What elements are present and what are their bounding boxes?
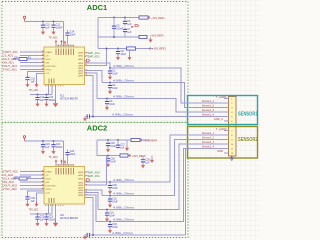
junction [117,48,119,50]
IC1 right pin names [78,51,83,77]
svg-text:100nF: 100nF [116,28,123,31]
wire CS_AD2 + label [3,173,45,177]
svg-text:SCLK: SCLK [46,178,52,180]
J1 pin stub 12 + label GND [217,149,228,153]
junction [46,213,48,215]
ground [108,203,112,208]
J1 pin stub 1 [224,98,229,100]
junction [109,67,111,69]
svg-text:AD7124-8BCPZ: AD7124-8BCPZ [60,98,78,101]
svg-text:CS_AD1: CS_AD1 [3,54,14,58]
svg-text:10nF: 10nF [109,215,115,218]
svg-text:DOUT_AD2: DOUT_AD2 [3,184,18,188]
ground [108,228,112,233]
ground [44,221,48,226]
J1 pin numbers 7-12 [231,131,234,156]
capacitor C3 row C [105,99,115,107]
svg-text:1uF: 1uF [31,81,36,84]
IC2 bottom pin names [49,198,54,203]
svg-text:GND: GND [217,149,223,153]
svg-text:ADC2: ADC2 [87,124,107,133]
junction [109,195,111,197]
capacitor C24 [65,150,75,165]
global label TEMP_AD1+ [85,52,102,55]
wire pin to ground [37,193,45,204]
ground [106,147,110,152]
ground [83,116,87,121]
J1 pin numbers 1-6 [231,99,233,124]
svg-text:TP_AD2: TP_AD2 [49,156,59,159]
svg-text:10nF: 10nF [112,226,118,229]
capacitor C1 row A [108,68,118,76]
wire REF feed up [85,49,107,66]
wire row D [90,116,229,118]
pin numbers IC1 top [57,44,73,46]
IC1 left pin names [46,51,57,75]
svg-text:TEMP_AD1-: TEMP_AD1- [87,56,101,59]
ground [44,102,48,107]
power +3V3_AVDD1 symbol [23,16,25,21]
svg-text:100nF: 100nF [56,27,63,30]
pin numbers IC2 top [57,164,73,166]
capacitor row E2 shield [86,233,90,237]
ground [51,149,55,154]
ground [35,221,39,226]
junction [106,48,108,50]
capacitor C10 [41,22,50,30]
ground [53,101,58,108]
svg-text:SYNC: SYNC [46,189,52,191]
svg-text:+3V3_REF4: +3V3_REF4 [143,139,157,142]
capacitor C22 [35,214,44,222]
ground right [150,156,154,164]
svg-text:START: START [46,51,53,54]
wire pin to ground tall [55,88,57,102]
junction [124,17,126,19]
svg-text:CS_AD2: CS_AD2 [3,173,14,177]
sheet ADC2 box [2,122,188,237]
svg-text:GND_A: GND_A [214,117,223,121]
junction [109,82,111,84]
wire AIN row C2 [85,144,229,210]
svg-text:4.99k_Ohms: 4.99k_Ohms [113,207,135,210]
junction [37,213,39,215]
power flag [55,40,58,45]
capacitor row C2 [105,210,115,218]
junction [92,116,94,118]
ground [53,220,58,227]
ground [41,30,45,35]
wire CLK pin to C15 [28,72,45,78]
svg-text:START: START [46,170,53,173]
wire REF2 rail A [97,140,150,156]
svg-text:Sense2_2: Sense2_2 [202,136,215,140]
svg-text:4.99k_Ohms: 4.99k_Ohms [113,65,135,68]
hier label REFIN1 [149,47,166,50]
wire DOUT_AD2 + label [3,184,45,188]
hier label +3V3_REF1 [148,16,165,20]
svg-text:Sense2_1: Sense2_1 [202,131,215,135]
svg-text:DIN: DIN [46,182,50,184]
capacitor C11 [51,22,63,30]
wire REF rail B [98,36,147,38]
resistor R6 [131,138,140,141]
svg-text:+3V3_REF2: +3V3_REF2 [150,35,164,38]
ground [116,55,120,60]
junction [107,155,109,157]
resistor R2 [139,16,148,19]
wire pin to ground tall [55,208,57,222]
svg-text:TP2_AD2: TP2_AD2 [29,209,40,212]
junction [42,140,44,142]
wire AIN row B2 [85,140,229,196]
wire DOUT_AD1 + label [3,64,45,68]
capacitor C20 [41,141,50,149]
capacitor C2 row B [108,83,118,91]
svg-text:10nF: 10nF [109,103,115,106]
capacitor C7 [123,28,132,38]
pin numbers IC2 left edge [42,171,43,189]
junction [113,17,115,19]
capacitor C6 [123,18,132,27]
svg-text:DIN_AD1: DIN_AD1 [3,61,15,65]
junction [46,94,48,96]
svg-text:Sense2_4: Sense2_4 [202,145,215,149]
svg-text:START_AD2: START_AD2 [3,170,19,174]
IC1 top pin names [56,49,74,56]
wire REF rail C [98,48,153,50]
svg-text:ADC1: ADC1 [87,3,107,12]
svg-text:Sense1_3: Sense1_3 [202,108,215,112]
junction [37,94,39,96]
svg-text:1uF: 1uF [40,99,45,102]
svg-text:T_Lab02: T_Lab02 [216,127,227,131]
wire AVDD rail [25,141,64,164]
pin stubs IC1 top [56,45,74,48]
svg-text:TP1_AD1: TP1_AD1 [29,89,40,92]
power +3V3_AVDD2 symbol [23,136,25,141]
svg-text:1uF: 1uF [127,23,132,26]
op-amp IC1 body (ADC AD7124) [44,47,85,85]
wire REF2 feed up [85,156,107,186]
IC2 top pin names [56,168,74,175]
capacitor C25 [25,197,35,203]
wire AIN row D2 [85,149,229,222]
svg-text:1uF: 1uF [45,27,50,30]
junction [53,140,55,142]
svg-text:10nF: 10nF [112,201,118,204]
capacitor C21 [51,141,63,149]
capacitor C4 row D shield [86,114,90,118]
svg-text:4.99k_Ohms: 4.99k_Ohms [113,80,135,83]
wire DIN_AD1 + label [3,61,45,65]
svg-text:CLK: CLK [46,192,51,194]
ground [25,82,29,87]
svg-text:DIN: DIN [46,62,50,64]
ground [34,202,38,207]
J1 pin stub 6 + label GND_A [214,117,229,121]
svg-text:1uF: 1uF [145,161,150,164]
svg-text:SYNC: SYNC [46,69,52,71]
capacitor C23 [44,214,56,222]
wire AIN row C feed [85,73,98,99]
SENSOR2 sheet box [188,127,258,159]
hier arrow small [135,25,139,27]
pin stubs IC1 left [42,52,45,70]
hier label stub [85,59,90,62]
resistor R5 100 Ohm [14,176,32,180]
IC1 bottom pin names [49,79,54,84]
wire DIN_AD2 + label [3,180,45,184]
wire AIN row D feed [85,76,94,117]
power flag [55,159,58,164]
junction [117,139,119,141]
svg-text:10nF: 10nF [110,160,116,163]
svg-text:100nF: 100nF [56,146,63,149]
wire pin to ground [37,74,45,85]
svg-text:DIN_AD2: DIN_AD2 [3,180,15,184]
wire row A [110,68,229,103]
wire REF rail A [98,18,150,49]
svg-text:4.99k_Ohms: 4.99k_Ohms [113,219,135,222]
pin numbers IC2 bottom [45,204,64,206]
svg-text:10uF: 10uF [70,153,76,156]
ground under rail [125,140,129,151]
svg-text:SYNC_AD2: SYNC_AD2 [3,187,18,191]
capacitor C27 [116,140,125,150]
svg-text:+3V3_REF5: +3V3_REF5 [132,155,146,158]
svg-text:1uF: 1uF [31,200,36,203]
ground [34,82,38,87]
capacitor C14 [65,30,75,45]
pin numbers IC1 right edge [86,52,87,75]
capacitor C15 [25,77,35,83]
wire SCLK_AD2 + label [3,177,45,181]
svg-text:+3V3_REF3: +3V3_REF3 [152,48,166,51]
ground [108,89,112,94]
capacitor C13 [44,95,56,103]
svg-text:SYNC_AD1: SYNC_AD1 [3,68,18,72]
hier label +3V3_REF4 [141,139,158,143]
svg-text:100: 100 [14,176,19,179]
pin stubs IC2 bottom [49,204,56,208]
power flag [64,41,67,46]
junction [53,21,55,23]
op-amp IC2 body (ADC AD7124) [44,167,85,205]
hier label +3V3_REF5 [129,154,146,158]
svg-text:1uF: 1uF [120,147,125,150]
svg-text:DOUT/RDY: DOUT/RDY [46,66,57,68]
svg-text:SENSOR2: SENSOR2 [238,137,258,143]
power flag [60,159,63,164]
connector J1 body [229,97,237,157]
wire SYNC_AD1 + label [3,68,45,72]
wire SCLK_AD1 + label [3,57,45,61]
wire row B [102,83,229,108]
svg-text:Sense1_2: Sense1_2 [202,104,215,108]
svg-text:1uF: 1uF [127,31,132,34]
capacitor C8 [116,49,127,57]
svg-text:1uF: 1uF [45,146,50,149]
ground [141,163,145,168]
ground [83,234,87,239]
IC2 left pin names [46,170,57,194]
svg-text:SENSOR1: SENSOR1 [238,111,258,117]
wire CS_AD1 + label [3,54,45,58]
wire START_AD2 + label [3,170,45,174]
junction [106,209,108,211]
svg-text:10nF: 10nF [112,87,118,90]
svg-text:10nF: 10nF [112,73,118,76]
wire AGND rail [30,88,52,95]
ground [106,162,110,167]
svg-text:DOUT/RDY: DOUT/RDY [46,185,57,187]
IC2 right pin names [78,171,83,197]
junction [113,36,115,38]
wire CLK pin to C25 [28,191,45,197]
power flag [60,40,63,45]
ground (blue) below J1 [230,156,234,161]
svg-text:Sense1_4: Sense1_4 [202,113,215,117]
capacitor row A2 [108,182,118,190]
capacitor C12 [35,95,44,103]
resistor R1 100 Ohm [14,57,32,61]
junction [42,21,44,23]
wire AIN row E2 [85,149,186,236]
svg-text:TP_AD1: TP_AD1 [49,37,59,40]
junction [106,98,108,100]
svg-text:T_Lab01: T_Lab01 [216,95,227,99]
svg-text:Sense2_3: Sense2_3 [202,140,215,144]
svg-text:4.99k_Ohms: 4.99k_Ohms [113,96,135,99]
svg-text:4.99k_Ohms: 4.99k_Ohms [113,179,135,182]
ground mark mid [131,26,133,27]
svg-text:AD7124-8BCPZ: AD7124-8BCPZ [60,217,78,220]
svg-text:START_AD1: START_AD1 [3,50,19,54]
svg-text:+3V3_REF1: +3V3_REF1 [151,17,165,20]
svg-text:Sense1_1: Sense1_1 [202,99,215,103]
junction [107,139,109,141]
svg-text:SCLK: SCLK [46,59,52,61]
wire AIN row A2 [85,135,229,182]
ground [41,149,45,154]
svg-text:4.99k_Ohms: 4.99k_Ohms [112,114,134,117]
global label TEMP_AD2- [85,175,101,178]
wire AIN row A feed [85,63,111,68]
svg-text:10nF: 10nF [112,187,118,190]
ground [148,38,152,43]
capacitor C5 [112,18,124,38]
svg-text:CLK: CLK [46,73,51,75]
pin stubs IC1 bottom [49,85,56,89]
resistor R3 [139,35,147,38]
ground [108,189,112,194]
pin numbers IC2 right edge [86,172,87,195]
junction [109,181,111,183]
J1 pin stub 7 + label T_Lab02 [216,127,229,131]
pin stubs IC2 top [56,164,74,167]
svg-text:DOUT_AD1: DOUT_AD1 [3,64,18,68]
wire AGND rail [30,208,52,215]
capacitor row B2 [108,196,118,204]
wire REF2 rail B [97,155,131,157]
svg-text:10nF: 10nF [110,145,116,148]
svg-text:4.99k_Ohms: 4.99k_Ohms [113,193,135,196]
junction [92,234,94,236]
wire SYNC_AD2 + label [3,187,45,191]
ground [105,105,109,110]
wire row C [97,99,229,113]
ground [25,202,29,207]
ground [35,102,39,107]
wire AVDD rail [25,22,64,45]
SENSOR1 sheet box [188,96,258,125]
global label TEMP_AD1- [85,56,101,59]
ground [51,30,55,35]
ground [105,217,109,222]
svg-text:4.99k_Ohms: 4.99k_Ohms [112,232,134,235]
svg-text:10nF: 10nF [121,53,127,56]
junction [109,221,111,223]
ground under R4 [127,50,131,60]
svg-text:100: 100 [14,57,19,60]
capacitor C28 [106,156,116,164]
power flag [64,160,67,165]
resistor R7 [120,154,128,157]
svg-text:1uF: 1uF [40,219,45,222]
capacitor C26 [106,140,116,148]
hier label stub [85,179,90,182]
sheet ADC1 box [2,2,188,123]
pin stubs IC2 left [42,172,45,190]
svg-text:TEMP_AD2-: TEMP_AD2- [87,175,101,178]
wire AIN row B feed [85,71,103,83]
wire START_AD1 + label [3,50,45,54]
ground [108,75,112,80]
pin numbers IC1 left edge [42,51,43,68]
pin numbers IC1 bottom [45,85,64,87]
resistor R4 [127,47,136,50]
capacitor C29 [141,157,150,165]
global label TEMP_AD2+ [85,172,102,175]
svg-text:10uF: 10uF [70,34,76,37]
capacitor row D2 [108,222,118,230]
